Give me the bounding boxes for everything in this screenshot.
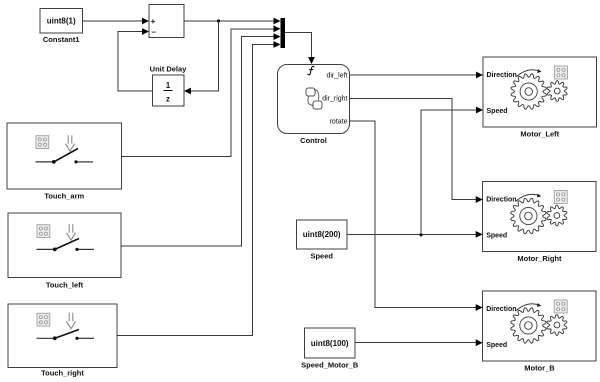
wire dir_right to Motor_Right Direction <box>350 99 483 203</box>
svg-text:Speed_Motor_B: Speed_Motor_B <box>301 361 359 370</box>
wire rotate to Motor_B Direction <box>350 121 483 311</box>
wire Speed to Motor_Right Speed <box>347 231 483 238</box>
motor Motor_Right <box>483 182 597 264</box>
svg-text:–: – <box>152 28 157 37</box>
svg-text:Touch_right: Touch_right <box>41 369 84 378</box>
sensor Touch_arm <box>7 123 122 201</box>
svg-text:Unit Delay: Unit Delay <box>150 65 188 74</box>
svg-text:dir_left: dir_left <box>326 72 347 79</box>
svg-text:rotate: rotate <box>330 118 348 125</box>
wire Touch_arm to mux input 2 <box>122 25 281 156</box>
sum block <box>149 5 184 38</box>
sensor Touch_left <box>8 213 121 290</box>
wire Touch_left to mux input 3 <box>121 33 281 246</box>
constant Speed <box>297 220 348 261</box>
svg-text:+: + <box>151 17 156 26</box>
wire Speed_Motor_B to Motor_B Speed <box>355 339 483 346</box>
svg-text:uint8(200): uint8(200) <box>303 230 341 239</box>
junction Speed wire <box>419 233 422 236</box>
svg-text:Speed: Speed <box>486 342 507 349</box>
svg-text:Direction: Direction <box>487 72 517 79</box>
svg-text:Constant1: Constant1 <box>43 35 80 44</box>
mux <box>281 18 286 48</box>
svg-text:Speed: Speed <box>486 233 507 240</box>
svg-text:z: z <box>166 95 170 104</box>
svg-text:uint8(1): uint8(1) <box>47 17 76 26</box>
junction sum output <box>217 19 220 22</box>
wire sum to mux input 1 <box>184 18 281 25</box>
wire Touch_right to mux input 4 <box>117 41 281 335</box>
constant Constant1 <box>40 9 83 45</box>
svg-text:Touch_arm: Touch_arm <box>44 192 84 201</box>
svg-text:Motor_B: Motor_B <box>524 364 555 373</box>
unit delay Unit Delay <box>150 65 188 107</box>
svg-text:Direction: Direction <box>486 197 516 204</box>
svg-text:Direction: Direction <box>486 306 516 313</box>
svg-text:Motor_Left: Motor_Left <box>520 130 559 139</box>
svg-text:dir_right: dir_right <box>322 95 347 102</box>
wire Speed branch to Motor_Left Speed <box>421 107 483 235</box>
chart Control <box>278 65 350 146</box>
svg-text:Speed: Speed <box>487 108 508 115</box>
wire feedback to Unit Delay <box>184 21 219 94</box>
wire Constant1 to sum <box>83 18 150 25</box>
svg-text:Motor_Right: Motor_Right <box>517 254 562 263</box>
motor Motor_B <box>483 291 597 373</box>
sensor Touch_right <box>8 304 117 378</box>
wire mux to Control trigger <box>285 33 315 65</box>
wire dir_left to Motor_Left Direction <box>350 72 483 79</box>
svg-text:Control: Control <box>300 136 327 145</box>
constant Speed_Motor_B <box>301 328 359 370</box>
motor Motor_Left <box>483 57 597 139</box>
svg-text:Touch_left: Touch_left <box>46 281 84 290</box>
wire Unit Delay to sum minus <box>118 28 153 91</box>
svg-text:uint8(100): uint8(100) <box>311 339 349 348</box>
svg-text:1: 1 <box>166 81 171 90</box>
svg-text:Speed: Speed <box>310 252 333 261</box>
